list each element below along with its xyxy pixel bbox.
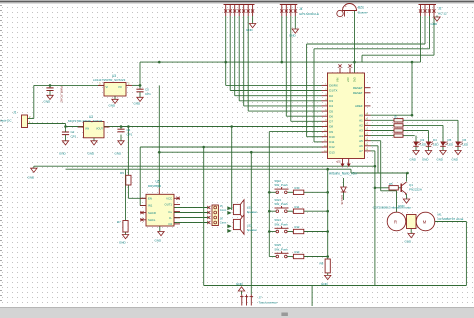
svg-text:IN1: IN1 (148, 204, 153, 208)
svg-text:VO: VO (118, 85, 122, 89)
svg-text:GND: GND (59, 152, 67, 156)
svg-text:D2: D2 (329, 94, 333, 98)
svg-text:BZ1: BZ1 (358, 6, 364, 10)
svg-text:D0/RX: D0/RX (329, 84, 338, 88)
svg-text:A1: A1 (359, 119, 363, 123)
svg-text:Arduino_Nano_v3.x: Arduino_Nano_v3.x (329, 172, 357, 176)
svg-text:CP1: CP1 (71, 134, 77, 138)
svg-text:EN: EN (148, 197, 152, 201)
svg-text:D9: D9 (329, 130, 333, 134)
svg-text:GND: GND (88, 152, 96, 156)
svg-text:GND: GND (109, 104, 117, 108)
svg-text:RESET: RESET (353, 91, 363, 95)
svg-text:D6: D6 (463, 138, 467, 142)
svg-text:Q1: Q1 (409, 183, 413, 187)
svg-text:GND: GND (410, 158, 416, 162)
svg-text:GND: GND (452, 158, 458, 162)
svg-text:3V3: 3V3 (353, 77, 357, 82)
svg-text:M1: M1 (438, 213, 442, 217)
svg-text:SHCR: SHCR (148, 211, 156, 215)
svg-text:O-: O- (169, 216, 172, 220)
svg-text:D3: D3 (421, 138, 425, 142)
svg-text:R10: R10 (295, 186, 300, 190)
svg-text:GPS MODULE: GPS MODULE (299, 12, 319, 16)
svg-text:GND: GND (155, 239, 163, 243)
svg-text:R: R (394, 220, 397, 225)
svg-text:D4: D4 (329, 104, 333, 108)
svg-text:O2: O2 (168, 222, 172, 226)
svg-text:LED: LED (448, 143, 454, 147)
svg-text:D8: D8 (329, 125, 333, 129)
svg-text:C0720B0913 vibration motor: C0720B0913 vibration motor (373, 206, 411, 210)
svg-text:O+: O+ (168, 210, 172, 214)
svg-text:HC-12: HC-12 (438, 11, 447, 15)
svg-text:D10: D10 (329, 135, 335, 139)
svg-text:D12: D12 (329, 145, 335, 149)
svg-text:GND: GND (422, 158, 428, 162)
svg-text:A7: A7 (359, 149, 363, 153)
svg-text:A0: A0 (359, 113, 363, 117)
svg-text:MCP1700-3302E_SOT23: MCP1700-3302E_SOT23 (68, 119, 103, 123)
svg-text:A6: A6 (359, 144, 363, 148)
svg-text:VIN: VIN (85, 128, 89, 131)
svg-text:R12: R12 (295, 225, 300, 229)
svg-text:J6: J6 (220, 217, 223, 221)
svg-text:GND: GND (236, 282, 244, 286)
svg-text:SW_Push: SW_Push (274, 183, 288, 187)
svg-text:R5: R5 (389, 182, 393, 186)
svg-text:Speaker: Speaker (247, 210, 257, 214)
svg-text:D3: D3 (329, 99, 333, 103)
svg-text:+[5]: +[5] (336, 160, 341, 164)
svg-text:D5: D5 (329, 109, 333, 113)
svg-text:J7: J7 (259, 296, 263, 300)
svg-text:J5: J5 (220, 204, 223, 208)
svg-text:GND: GND (44, 100, 52, 104)
svg-text:Speaker: Speaker (247, 228, 257, 232)
svg-text:VOUT: VOUT (96, 128, 103, 131)
svg-text:J1: J1 (13, 111, 17, 115)
svg-text:GND: GND (115, 152, 123, 156)
svg-text:R7: R7 (117, 220, 121, 224)
svg-text:A2: A2 (359, 124, 363, 128)
svg-text:AREF: AREF (355, 104, 363, 108)
svg-text:LD1117S50TR_SOT223: LD1117S50TR_SOT223 (93, 78, 126, 82)
svg-text:D5: D5 (448, 138, 452, 142)
svg-text:GND: GND (431, 22, 439, 26)
svg-text:LED: LED (433, 143, 439, 147)
svg-text:VCC: VCC (166, 197, 172, 201)
svg-text:D7: D7 (329, 120, 333, 124)
svg-text:Conn: Conn (220, 221, 227, 225)
svg-text:SHCL: SHCL (148, 218, 156, 222)
svg-text:GND: GND (289, 34, 297, 38)
svg-text:DRV8833: DRV8833 (148, 184, 161, 188)
svg-text:RESET: RESET (353, 86, 363, 90)
svg-text:CP1: CP1 (127, 132, 133, 136)
svg-text:D4: D4 (433, 138, 437, 142)
svg-text:D13: D13 (329, 150, 335, 154)
svg-text:A4: A4 (359, 134, 363, 138)
svg-text:GND: GND (321, 282, 329, 286)
svg-text:J2: J2 (438, 7, 442, 11)
svg-text:GND: GND (28, 176, 36, 180)
svg-text:GND: GND (119, 241, 127, 245)
svg-text:LS1: LS1 (247, 206, 252, 210)
svg-text:R4: R4 (120, 171, 124, 175)
svg-text:D6: D6 (329, 114, 333, 118)
svg-text:VI: VI (106, 85, 109, 89)
svg-text:Conn: Conn (220, 208, 227, 212)
svg-text:R11: R11 (295, 205, 300, 209)
svg-text:GND: GND (405, 240, 413, 244)
svg-text:VIN: VIN (336, 78, 340, 82)
svg-text:PWR_FLAG: PWR_FLAG (60, 86, 64, 103)
svg-text:+: + (345, 4, 347, 8)
svg-text:D11: D11 (329, 140, 334, 144)
svg-text:Touch_sensor: Touch_sensor (259, 301, 278, 305)
svg-text:Jack-DC: Jack-DC (0, 119, 12, 123)
svg-text:GND: GND (134, 102, 142, 106)
svg-text:Buzzer: Buzzer (358, 10, 367, 14)
svg-text:A3: A3 (359, 129, 363, 133)
svg-text:LED: LED (421, 143, 427, 147)
svg-text:LED: LED (463, 143, 469, 147)
svg-text:CP1: CP1 (145, 92, 151, 96)
svg-text:PN2222A: PN2222A (409, 188, 422, 192)
svg-text:OUT1: OUT1 (165, 203, 173, 207)
svg-text:1N4148: 1N4148 (340, 195, 344, 205)
svg-text:R9: R9 (394, 115, 398, 119)
svg-text:SW_Push: SW_Push (274, 222, 288, 226)
svg-text:C0720B0T07 vibrat: C0720B0T07 vibrat (438, 217, 464, 221)
svg-text:LS2: LS2 (247, 224, 252, 228)
svg-text:J4: J4 (299, 7, 303, 11)
svg-text:R13: R13 (295, 250, 300, 254)
svg-text:+5V: +5V (346, 77, 350, 82)
svg-text:GND: GND (437, 158, 443, 162)
svg-text:SW_Push: SW_Push (274, 202, 288, 206)
svg-text:GND: GND (246, 28, 254, 32)
svg-text:A5: A5 (359, 139, 363, 143)
svg-text:R8: R8 (320, 262, 324, 266)
svg-text:M: M (423, 220, 427, 225)
svg-text:U5: U5 (156, 180, 160, 184)
svg-text:SW_Push: SW_Push (274, 247, 288, 251)
svg-text:D1/TX: D1/TX (329, 89, 337, 93)
